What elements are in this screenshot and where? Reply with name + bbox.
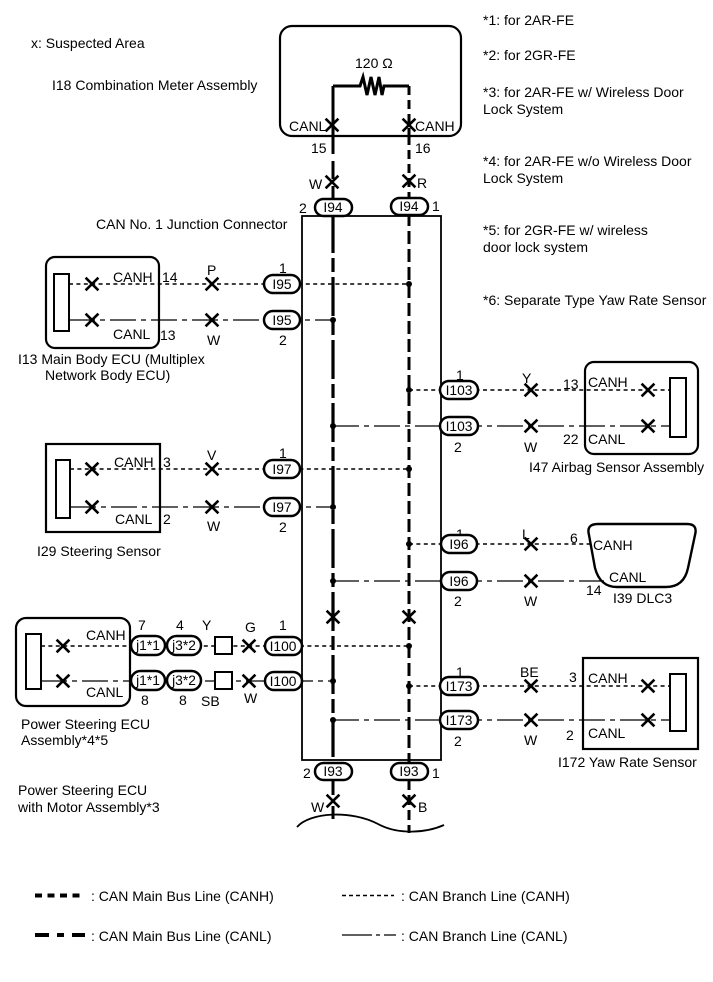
svg-text:CANH: CANH: [588, 374, 628, 390]
svg-text:I95: I95: [272, 277, 292, 292]
svg-text:120 Ω: 120 Ω: [355, 55, 393, 71]
svg-text:with Motor Assembly*3: with Motor Assembly*3: [17, 799, 160, 815]
svg-text:CANL: CANL: [115, 511, 153, 527]
svg-text:*4: for 2AR-FE w/o Wireless Do: *4: for 2AR-FE w/o Wireless Door: [483, 153, 692, 169]
svg-text:*5: for 2GR-FE w/ wireless: *5: for 2GR-FE w/ wireless: [483, 222, 648, 238]
svg-text:2: 2: [566, 727, 574, 743]
svg-text:I93: I93: [323, 764, 343, 779]
svg-text:W: W: [311, 799, 325, 815]
svg-text:I13 Main Body ECU (Multiplex: I13 Main Body ECU (Multiplex: [18, 351, 205, 367]
svg-text:I94: I94: [323, 200, 343, 215]
svg-text:I172 Yaw Rate Sensor: I172 Yaw Rate Sensor: [558, 754, 697, 770]
svg-text:: CAN Branch Line (CANL): : CAN Branch Line (CANL): [401, 928, 568, 944]
svg-text:: CAN Main Bus Line (CANL): : CAN Main Bus Line (CANL): [91, 928, 272, 944]
svg-text:Assembly*4*5: Assembly*4*5: [21, 732, 108, 748]
svg-text:1: 1: [279, 445, 287, 461]
svg-text:1: 1: [279, 260, 287, 276]
svg-text:I94: I94: [399, 199, 419, 214]
svg-text:j1*1: j1*1: [135, 638, 160, 653]
svg-text:W: W: [524, 732, 538, 748]
svg-text:1: 1: [432, 198, 440, 214]
svg-text:I93: I93: [399, 764, 419, 779]
svg-text:8: 8: [141, 692, 149, 708]
svg-text:CAN No. 1 Junction Connector: CAN No. 1 Junction Connector: [96, 216, 288, 232]
svg-text:W: W: [309, 176, 323, 192]
svg-text:door lock system: door lock system: [483, 239, 588, 255]
svg-text:Y: Y: [522, 370, 532, 386]
svg-text:6: 6: [570, 530, 578, 546]
svg-text:CANH: CANH: [588, 670, 628, 686]
svg-text:3: 3: [163, 454, 171, 470]
svg-text:j1*1: j1*1: [135, 673, 160, 688]
svg-text:G: G: [245, 619, 256, 635]
svg-text:CANL: CANL: [86, 684, 124, 700]
svg-text:15: 15: [311, 140, 327, 156]
svg-text:16: 16: [415, 140, 431, 156]
svg-text:I103: I103: [446, 383, 473, 398]
svg-text:j3*2: j3*2: [171, 673, 196, 688]
svg-text:CANL: CANL: [588, 431, 626, 447]
svg-text:P: P: [207, 262, 216, 278]
svg-text:I47 Airbag Sensor Assembly: I47 Airbag Sensor Assembly: [529, 459, 704, 475]
svg-text:*1: for 2AR-FE: *1: for 2AR-FE: [483, 12, 574, 28]
svg-text:7: 7: [138, 617, 146, 633]
svg-text:B: B: [418, 799, 427, 815]
svg-text:Lock System: Lock System: [483, 101, 563, 117]
svg-text:CANH: CANH: [114, 454, 154, 470]
svg-text:W: W: [244, 690, 258, 706]
svg-text:CANL: CANL: [113, 326, 151, 342]
svg-text:3: 3: [569, 669, 577, 685]
svg-text:2: 2: [454, 439, 462, 455]
svg-text:13: 13: [160, 327, 176, 343]
svg-text:13: 13: [563, 376, 579, 392]
svg-text:I173: I173: [446, 713, 473, 728]
svg-text:BE: BE: [520, 664, 539, 680]
svg-text:I97: I97: [272, 462, 291, 477]
svg-text:SB: SB: [201, 693, 220, 709]
svg-text:2: 2: [163, 511, 171, 527]
svg-text:R: R: [417, 175, 427, 191]
svg-text:1: 1: [432, 765, 440, 781]
svg-text:14: 14: [162, 269, 178, 285]
svg-text:W: W: [524, 439, 538, 455]
svg-text:I96: I96: [449, 537, 469, 552]
svg-text:22: 22: [563, 431, 579, 447]
svg-text:CANL: CANL: [588, 725, 626, 741]
svg-text:I96: I96: [449, 574, 469, 589]
svg-text:I29 Steering Sensor: I29 Steering Sensor: [37, 543, 161, 559]
svg-text:W: W: [207, 518, 221, 534]
svg-text:x: Suspected Area: x: Suspected Area: [31, 35, 145, 51]
svg-text:W: W: [207, 332, 221, 348]
svg-text:*2: for 2GR-FE: *2: for 2GR-FE: [483, 47, 576, 63]
svg-text:CANH: CANH: [86, 627, 126, 643]
svg-text:*3: for 2AR-FE w/ Wireless Doo: *3: for 2AR-FE w/ Wireless Door: [483, 84, 684, 100]
svg-text:2: 2: [454, 733, 462, 749]
svg-text:1: 1: [279, 617, 287, 633]
svg-text:I18 Combination Meter Assembl: I18 Combination Meter Assembly: [52, 77, 257, 93]
svg-text:2: 2: [454, 593, 462, 609]
svg-text:2: 2: [299, 200, 307, 216]
svg-text:I95: I95: [272, 313, 292, 328]
svg-text:CANL: CANL: [609, 569, 647, 585]
svg-text:14: 14: [586, 582, 602, 598]
svg-text:CANH: CANH: [113, 269, 153, 285]
svg-text:Y: Y: [202, 617, 212, 633]
svg-text:V: V: [207, 447, 217, 463]
svg-text:CANH: CANH: [415, 118, 455, 134]
svg-text:8: 8: [179, 692, 187, 708]
svg-text:I97: I97: [272, 500, 291, 515]
svg-text:: CAN Main Bus Line (CANH): : CAN Main Bus Line (CANH): [91, 888, 274, 904]
svg-text:Power Steering ECU: Power Steering ECU: [21, 716, 150, 732]
svg-text:*6: Separate Type Yaw Rate Sen: *6: Separate Type Yaw Rate Sensor: [483, 292, 707, 308]
svg-text:Power Steering ECU: Power Steering ECU: [18, 782, 147, 798]
svg-text:W: W: [524, 593, 538, 609]
svg-text:I39 DLC3: I39 DLC3: [613, 590, 672, 606]
svg-text:Network Body ECU): Network Body ECU): [45, 367, 170, 383]
svg-text:CANH: CANH: [593, 537, 633, 553]
svg-text:I100: I100: [270, 639, 297, 654]
svg-text:4: 4: [176, 617, 184, 633]
svg-text:j3*2: j3*2: [171, 638, 196, 653]
svg-text:I103: I103: [446, 419, 473, 434]
svg-text:: CAN Branch Line (CANH): : CAN Branch Line (CANH): [401, 888, 570, 904]
svg-text:2: 2: [303, 765, 311, 781]
svg-text:CANL: CANL: [289, 118, 327, 134]
svg-text:2: 2: [279, 332, 287, 348]
svg-text:I173: I173: [446, 679, 473, 694]
svg-text:Lock System: Lock System: [483, 170, 563, 186]
svg-text:I100: I100: [270, 674, 297, 689]
svg-text:2: 2: [279, 519, 287, 535]
